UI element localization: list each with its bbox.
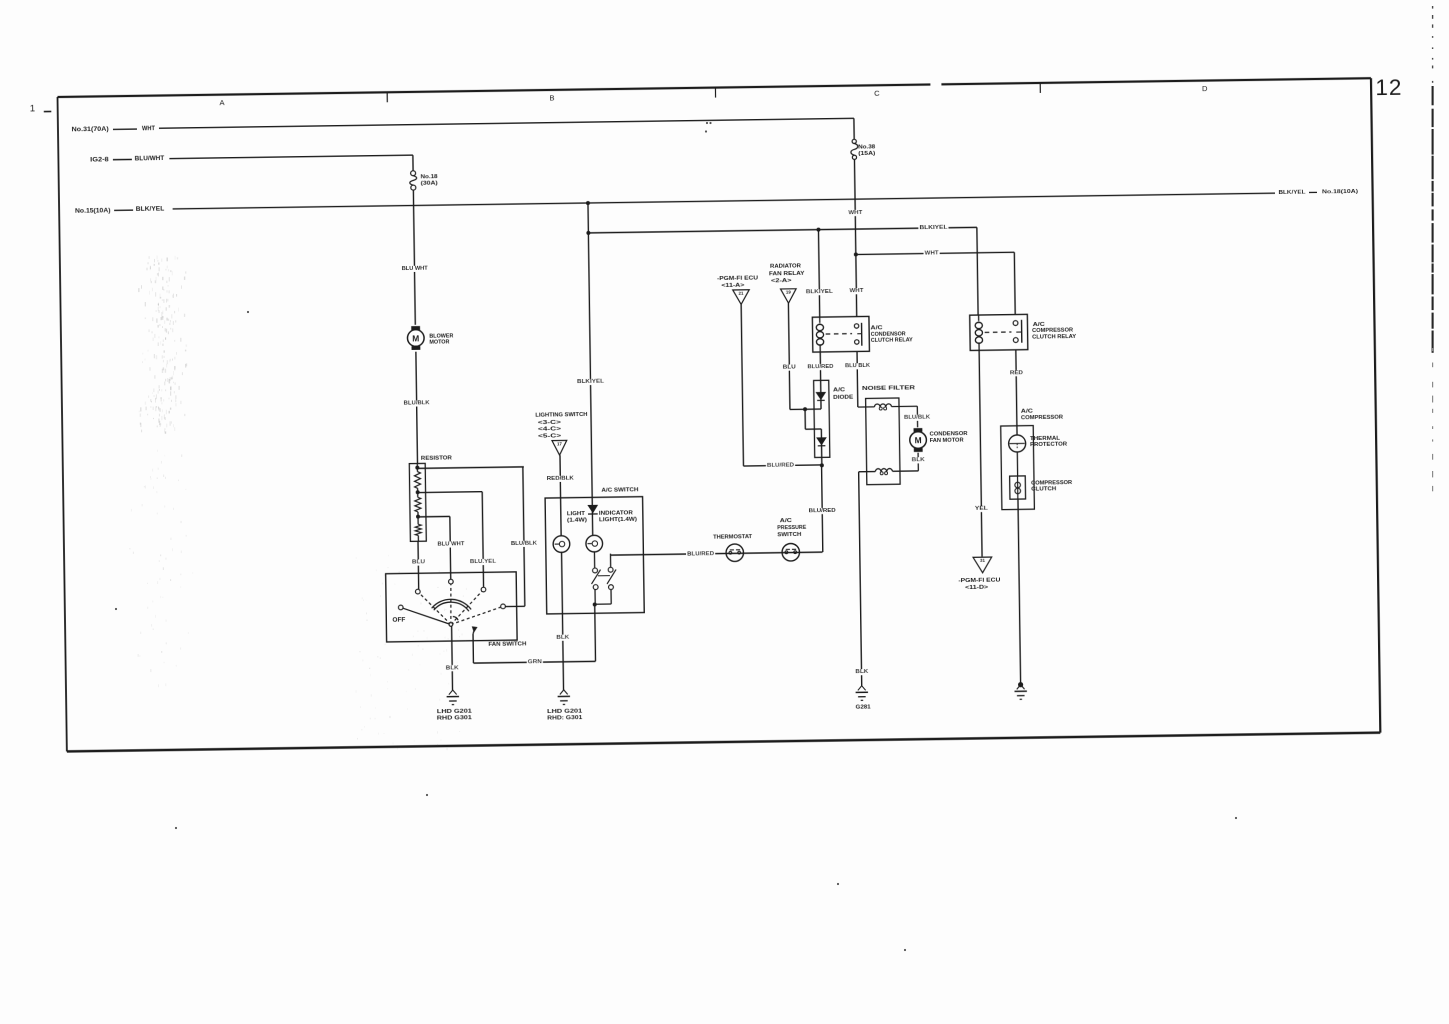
svg-text:RADIATOR: RADIATOR <box>770 264 802 270</box>
svg-text:CLUTCH RELAY: CLUTCH RELAY <box>871 337 913 344</box>
svg-text:No.15(10A): No.15(10A) <box>75 208 111 215</box>
svg-text:PRESSURE: PRESSURE <box>777 525 806 531</box>
svg-text:No.31(70A): No.31(70A) <box>72 127 109 134</box>
svg-text:GRN: GRN <box>528 659 542 665</box>
svg-text:19: 19 <box>786 290 792 295</box>
svg-text:BLU/RED: BLU/RED <box>809 508 836 514</box>
svg-text:WHT: WHT <box>142 126 155 132</box>
svg-text:17: 17 <box>557 441 563 446</box>
svg-text:C: C <box>874 89 880 98</box>
svg-text:BLK/YEL: BLK/YEL <box>136 207 165 213</box>
svg-text:BLU/BLK: BLU/BLK <box>511 541 538 547</box>
svg-text:PROTECTOR: PROTECTOR <box>1030 441 1068 448</box>
svg-text:BLOWER: BLOWER <box>429 333 454 339</box>
svg-text:BLU/RED: BLU/RED <box>807 364 833 370</box>
svg-text:BLU/RED: BLU/RED <box>687 551 714 557</box>
svg-text:B: B <box>549 93 554 102</box>
svg-text:IG2-8: IG2-8 <box>90 157 109 163</box>
svg-text:BLU WHT: BLU WHT <box>402 266 429 272</box>
svg-text:M: M <box>915 435 922 445</box>
svg-text:COMPRESSOR: COMPRESSOR <box>1021 415 1064 422</box>
svg-text:WHT: WHT <box>849 288 864 294</box>
svg-text:CLUTCH RELAY: CLUTCH RELAY <box>1032 334 1076 341</box>
svg-text:NOISE FILTER: NOISE FILTER <box>862 385 916 392</box>
svg-text:BLK: BLK <box>446 665 460 671</box>
svg-text:BLU/BLK: BLU/BLK <box>404 400 431 406</box>
svg-text:BLU BLK: BLU BLK <box>845 363 871 369</box>
svg-text:BLU/WHT: BLU/WHT <box>135 156 165 162</box>
svg-text:D: D <box>1202 84 1208 93</box>
svg-text:BLU: BLU <box>783 364 796 370</box>
svg-text:RED: RED <box>1010 370 1023 376</box>
svg-text:No.18(10A): No.18(10A) <box>1322 189 1358 196</box>
svg-text:-PGM-FI ECU: -PGM-FI ECU <box>958 578 1000 585</box>
svg-text:A/C: A/C <box>780 518 793 524</box>
svg-text:CLUTCH: CLUTCH <box>1031 486 1056 492</box>
svg-text:LIGHT(1.4W): LIGHT(1.4W) <box>599 517 637 524</box>
svg-text:M: M <box>412 333 419 343</box>
svg-text:A/C: A/C <box>1033 322 1045 328</box>
svg-text:BLU/RED: BLU/RED <box>767 462 794 468</box>
svg-text:OFF: OFF <box>392 616 405 623</box>
svg-text:RHD: G301: RHD: G301 <box>547 715 583 722</box>
svg-text:12: 12 <box>1375 75 1402 100</box>
svg-text:LIGHTING SWITCH: LIGHTING SWITCH <box>535 412 587 419</box>
svg-text:RHD G301: RHD G301 <box>437 715 473 722</box>
svg-text:BLKIYEL: BLKIYEL <box>919 225 948 231</box>
svg-text:<2-A>: <2-A> <box>771 278 792 284</box>
svg-text:(1.4W): (1.4W) <box>567 517 587 523</box>
svg-text:FAN SWITCH: FAN SWITCH <box>488 641 526 648</box>
svg-text:RESISTOR: RESISTOR <box>421 455 453 461</box>
svg-text:<3-C>: <3-C> <box>538 420 562 426</box>
svg-text:BLKIYEL: BLKIYEL <box>577 379 605 385</box>
svg-text:No.18: No.18 <box>421 174 438 180</box>
svg-text:A/C SWITCH: A/C SWITCH <box>601 487 638 494</box>
svg-text:YEL: YEL <box>975 506 989 512</box>
svg-text:(15A): (15A) <box>858 151 875 157</box>
svg-text:1: 1 <box>30 103 35 114</box>
svg-text:BLU: BLU <box>412 559 425 565</box>
svg-text:<11-D>: <11-D> <box>965 585 989 591</box>
svg-text:BLU.YEL: BLU.YEL <box>470 559 497 565</box>
svg-text:WHT: WHT <box>925 250 940 256</box>
svg-text:<4-C>: <4-C> <box>538 427 562 433</box>
svg-text:A/C: A/C <box>833 387 845 393</box>
svg-text:-PGM-FI ECU: -PGM-FI ECU <box>717 276 758 283</box>
svg-text:FAN RELAY: FAN RELAY <box>769 271 805 278</box>
svg-text:<5-C>: <5-C> <box>538 433 562 439</box>
svg-text:G281: G281 <box>856 704 872 710</box>
svg-text:BLK: BLK <box>912 457 926 463</box>
svg-text:MOTOR: MOTOR <box>429 340 450 346</box>
svg-text:BLU WHT: BLU WHT <box>437 541 465 547</box>
svg-text:BLK: BLK <box>556 635 570 641</box>
svg-text:(30A): (30A) <box>421 181 438 187</box>
svg-text:BLK: BLK <box>855 669 869 675</box>
svg-text:THERMOSTAT: THERMOSTAT <box>713 534 753 541</box>
svg-text:WHT: WHT <box>848 210 863 216</box>
svg-text:RED/BLK: RED/BLK <box>547 476 575 482</box>
svg-text:DIODE: DIODE <box>833 395 853 401</box>
svg-text:BLKIYEL: BLKIYEL <box>806 289 834 295</box>
svg-text:LIGHT: LIGHT <box>567 511 586 517</box>
svg-text:SWITCH: SWITCH <box>777 532 801 538</box>
svg-text:BLU/BLK: BLU/BLK <box>904 415 931 421</box>
svg-text:FAN MOTOR: FAN MOTOR <box>930 437 965 443</box>
svg-text:No.38: No.38 <box>858 144 875 150</box>
svg-text:<11-A>: <11-A> <box>721 283 745 289</box>
svg-text:BLK/YEL: BLK/YEL <box>1278 189 1306 195</box>
svg-text:21: 21 <box>738 290 744 295</box>
svg-text:31: 31 <box>980 558 986 563</box>
